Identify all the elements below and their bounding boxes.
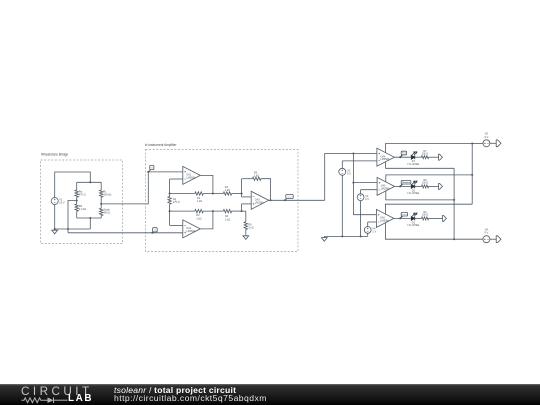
flag input 2 [152, 231, 154, 234]
wire OA5 V- pin rail [386, 191, 454, 200]
wire R2 to R4 [203, 210, 223, 212]
svg-text:2.2 kΩ: 2.2 kΩ [79, 208, 86, 211]
op-amp OA4 [377, 148, 395, 166]
svg-text:LTL-307EE: LTL-307EE [407, 163, 419, 166]
svg-text:470 Ω: 470 Ω [173, 201, 180, 204]
wire V4 bottom to ground rail [367, 233, 369, 236]
flag node after R9 [443, 216, 447, 222]
resistor Ra left-top of bridge [76, 182, 78, 190]
wire to R6 branch [242, 211, 246, 222]
wire node A vertical [169, 179, 171, 197]
resistor Rc right-top of bridge [100, 182, 102, 190]
LED D1 [411, 155, 414, 159]
op-amp OA2 [183, 220, 201, 238]
svg-text:1 kΩ: 1 kΩ [254, 175, 259, 178]
node bridge top center [89, 181, 91, 183]
svg-text:10 V: 10 V [59, 201, 65, 205]
flag node after R8 [439, 184, 443, 190]
wire plus corner vertical [241, 204, 243, 211]
svg-text:5 V: 5 V [347, 172, 351, 176]
node bridge left mid [76, 200, 78, 202]
svg-text:LM358A: LM358A [381, 187, 390, 190]
wire OA3 plus stub [242, 203, 252, 205]
svg-text:100 Ω: 100 Ω [422, 152, 429, 155]
wire ground rail [55, 228, 91, 230]
resistor Rstrain right-bottom of bridge [100, 208, 103, 215]
wire R8 to flag [429, 185, 439, 187]
wire R4 to plus corner [232, 210, 242, 212]
svg-text:LM358A: LM358A [380, 219, 389, 222]
op-amp OA6 [376, 209, 394, 227]
voltage source V4 [367, 222, 369, 227]
wire flag2 to OA2 plus input (long wire from bridge) [68, 232, 183, 234]
wire feedback top left [242, 178, 253, 180]
svg-text:400 Ω: 400 Ω [103, 212, 110, 215]
wire bridge rect bottom [77, 217, 102, 219]
wire D2 row from op-amp output [395, 185, 412, 187]
resistor R7 [421, 156, 428, 159]
svg-text:1 kΩ: 1 kΩ [197, 200, 202, 203]
svg-text:1 V: 1 V [372, 230, 376, 234]
resistor R6 [244, 222, 247, 230]
svg-text:LM358A: LM358A [186, 230, 195, 233]
flag on D3 row [400, 216, 402, 218]
resistor R2 [195, 209, 204, 212]
wire bridge output to instrumentation amp [101, 172, 148, 204]
dashed box: Wheatstone Bridge block [41, 160, 123, 244]
wire V1 bottom to ground rail [54, 205, 56, 230]
wire OA2 minus stub [170, 224, 183, 226]
wire OA3 minus stub [242, 196, 252, 198]
resistor R9 [421, 217, 428, 220]
resistor R4 [223, 209, 231, 212]
ground comparator bank [323, 236, 325, 237]
wire R3 to OA3 minus corner [232, 193, 242, 195]
wire V+ bus vertical [471, 144, 473, 205]
wire V6 to flag [490, 238, 496, 240]
op-amp OA5 [377, 177, 395, 195]
wire R7 to flag [429, 156, 439, 158]
wire bridge bottom stub [89, 218, 91, 229]
voltage source V1 [51, 198, 58, 205]
svg-text:1 kΩ: 1 kΩ [248, 227, 253, 230]
svg-text:1 kΩ: 1 kΩ [196, 217, 201, 220]
wire bridge rect top [77, 181, 102, 183]
svg-text:470 Ω: 470 Ω [79, 193, 86, 196]
svg-text:100 Ω: 100 Ω [422, 214, 429, 217]
LED D3 [411, 216, 414, 220]
wire D3 row from op-amp output [394, 217, 411, 219]
svg-text:9 V: 9 V [484, 231, 488, 235]
wire comparator plus bus vertical [352, 154, 354, 215]
wire LED to R8 [415, 185, 422, 187]
resistor Rg [168, 197, 171, 205]
wire bus to OA5 plus [353, 182, 377, 184]
svg-text:LM358A: LM358A [186, 176, 195, 179]
flag input 1 [148, 170, 151, 172]
wire OA3 minus feedback vertical [241, 179, 243, 197]
wire R1 to R3 [203, 193, 223, 195]
voltage source V6 [483, 236, 490, 243]
LED D2 [411, 184, 414, 188]
wire LED to R7 [415, 156, 422, 158]
wire bottom node row [170, 210, 195, 212]
flag node V+ [496, 140, 501, 147]
wire feedback right down to output [261, 179, 271, 201]
wire comparator ground rail [324, 235, 367, 237]
flag on D1 row [400, 155, 402, 157]
wire OA4 V- pin rail [386, 162, 455, 169]
wire to OA1 plus input [148, 171, 183, 173]
node on ground wire [67, 228, 69, 230]
wire V2 bottom to ground rail [341, 175, 343, 236]
wire node B vertical [169, 204, 171, 225]
CircuitLab logo text [21, 386, 93, 398]
wire OA5 V+ pin rail [386, 175, 472, 182]
resistor R3 [223, 192, 231, 195]
wire R9 to flag [429, 217, 443, 219]
svg-text:100 Ω: 100 Ω [422, 182, 429, 185]
svg-text:Wheatstone Bridge: Wheatstone Bridge [41, 153, 68, 157]
wire output up to comparator input bus [325, 154, 377, 201]
flag Vout [285, 199, 287, 201]
svg-text:100 kΩ: 100 kΩ [103, 193, 111, 196]
svg-text:9 V: 9 V [484, 135, 488, 139]
wire OA6 V- pin rail to bottom bus [385, 223, 483, 239]
flag node V- [496, 236, 501, 243]
svg-text:LTL-307EE: LTL-307EE [407, 224, 419, 227]
resistor Rb left-bottom of bridge [75, 204, 78, 211]
wire R6 to ground [245, 230, 247, 235]
wire V- bus vertical [453, 168, 455, 239]
ground below R6 [245, 235, 247, 236]
wire V3 bottom to ground rail [360, 201, 362, 237]
wire OA2 output loop [200, 211, 213, 229]
op-amp OA1 [183, 166, 201, 184]
dashed box: Instrumentation Amplifier block [146, 149, 299, 251]
wire V5 to flag [490, 142, 496, 144]
logo wire glyph: resistor + diode [21, 397, 69, 404]
voltage source V5 [483, 140, 490, 147]
wire OA4 V+ pin rail [386, 144, 473, 153]
resistor R8 [421, 185, 428, 188]
voltage source V2 [341, 161, 343, 168]
wire LED to R9 [415, 217, 422, 219]
wire OA3 output to comparator bank [269, 199, 325, 201]
ground [54, 229, 56, 230]
svg-text:LM358A: LM358A [381, 158, 390, 161]
svg-text:LM358A: LM358A [255, 201, 264, 204]
flag node after R7 [439, 154, 443, 160]
wire V1 top to bridge top [55, 172, 91, 198]
op-amp OA3 [251, 191, 269, 209]
wire OA1 output loop [200, 175, 213, 193]
svg-text:1 kΩ: 1 kΩ [225, 189, 230, 192]
wire bridge left mid to lower-left corner [68, 201, 77, 233]
wire OA6 V+ pin rail [385, 204, 472, 214]
wire bus to OA6 plus [353, 214, 376, 216]
svg-text:1 kΩ: 1 kΩ [225, 218, 230, 221]
wire D1 row from op-amp output [394, 156, 411, 158]
wire top rail to V5 [472, 143, 483, 145]
voltage source V3 [360, 190, 362, 194]
wire OA1 minus stub [170, 178, 183, 180]
svg-text:Vout: Vout [287, 195, 292, 198]
node bridge right mid [100, 203, 102, 205]
resistor R5 feedback [252, 177, 261, 180]
svg-text:Green: Green [401, 213, 408, 216]
svg-text:In Instrument Amplifier: In Instrument Amplifier [145, 143, 178, 147]
flag on D2 row [400, 184, 402, 186]
wire top node row [170, 193, 195, 195]
svg-text:3 V: 3 V [365, 197, 369, 201]
resistor R1 [195, 192, 204, 195]
svg-text:Medium: Medium [402, 182, 410, 184]
svg-text:LTL-307EE: LTL-307EE [407, 192, 419, 195]
